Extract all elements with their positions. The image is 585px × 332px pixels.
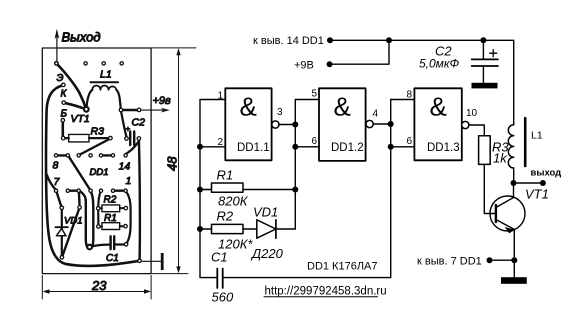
junction pin2 [197,144,203,150]
ground VT1 [501,277,527,284]
C2 plus [490,50,497,57]
DD1 bottom pad row [54,188,128,193]
svg-text:+9в: +9в [153,95,172,107]
+9v wire [330,40,390,64]
C2 lead bottom [482,66,484,83]
right rail [223,100,391,278]
dimension extension 23 right [150,276,152,300]
junction right pin6 [388,144,394,150]
C2 plates pcb [130,132,134,146]
svg-text:1: 1 [126,175,132,187]
bubble DD1.2 [366,120,373,127]
dimension line 48 [178,50,180,272]
bubble DD1.1 [272,121,279,128]
trace coil to +9v pad [121,109,138,111]
R1 stubs [98,225,123,227]
R3 lead down [484,164,495,213]
gate DD1.1 [225,88,271,160]
trace C2 right down right side [139,140,140,259]
svg-text:&: & [334,92,351,122]
R1 pcb body [102,223,120,230]
svg-text:+9В: +9В [294,59,314,71]
gate DD1.3 [414,88,461,160]
svg-text:Д220: Д220 [250,246,284,261]
pad R3 right [108,136,113,141]
mount pads top [83,61,88,66]
junction out1 [292,122,298,128]
wire out DD1.2 [373,123,391,125]
L1 underline [91,81,119,83]
pad R2 right [123,206,128,211]
svg-text:820К: 820К [218,194,249,209]
svg-text:DD1.1: DD1.1 [237,142,270,154]
R3 pcb body [69,134,89,142]
svg-text:DD1.3: DD1.3 [427,142,460,154]
R3 left stub [65,137,69,139]
svg-text:к выв. 7 DD1: к выв. 7 DD1 [417,256,482,268]
svg-text:http://299792458.3dn.ru: http://299792458.3dn.ru [265,286,387,298]
DD1 top pad row [54,153,128,158]
svg-text:14: 14 [119,161,131,173]
svg-text:Б: Б [61,109,68,120]
dimension line 23 [45,291,150,293]
svg-text:8: 8 [407,90,413,101]
pad VD1 bottom [60,255,65,260]
bubble DD1.3 [462,121,469,128]
base bar [495,205,497,222]
svg-text:C1: C1 [211,250,228,265]
svg-text:560: 560 [212,290,234,305]
svg-text:10: 10 [466,108,478,119]
junction out2 [388,121,394,127]
L1 coil schematic [508,125,513,168]
svg-text:DD1.2: DD1.2 [331,142,364,154]
branch to pin7 pad [46,174,56,190]
bottom pads bar 2-3 [68,189,79,191]
mid rail [295,100,319,230]
bottom pads bar 6-7 [113,189,126,191]
emitter lead down [513,230,515,278]
pad C2 left [124,136,129,141]
pad diag top [77,205,82,210]
terminal dot 14 [327,37,333,43]
VD1 vertical trace [61,209,63,256]
wire out DD1.1 [279,124,295,126]
svg-text:&: & [430,92,447,122]
svg-text:R1: R1 [217,168,234,183]
svg-text:6: 6 [312,136,318,147]
junction R1 left [197,187,203,193]
svg-text:Выход: Выход [62,30,101,45]
pad K [61,100,66,105]
gate DD1.2 [319,88,366,161]
+9v arrow pcb [141,109,167,111]
trace E pad to collector blob [56,64,86,110]
top pads bar 1-2 [56,154,68,156]
pin2 stub [200,146,225,148]
pin6 stub DD1.2 [295,146,319,148]
ground C2 [472,83,498,89]
pad C1 right [124,242,129,247]
R1 wires [200,189,295,191]
svg-text:R1: R1 [104,213,117,224]
junction emitter [511,257,517,263]
svg-text:5,0мкФ: 5,0мкФ [419,57,460,71]
pad vyhod [54,61,59,66]
R3 right lead [89,137,109,139]
junction mid pin6 [292,144,298,150]
L1 core [524,118,527,166]
pad coil right [119,108,124,113]
junction R1 right [292,187,298,193]
svg-text:К: К [61,89,68,100]
svg-text:48: 48 [165,156,180,171]
junction R2 left [197,226,203,232]
right column trace pin1 down to C1 pad [126,191,131,244]
svg-text:5: 5 [312,89,318,100]
svg-text:6: 6 [407,136,413,147]
svg-text:L1: L1 [100,69,112,81]
blob hairpin [86,244,93,251]
left rail DD1.1 inputs [200,100,225,278]
VD1 diode bar [55,226,68,228]
C2 lead top [482,40,484,58]
junction C2 top [480,37,486,43]
pin6 stub DD1.3 [391,146,415,148]
ground symbol right of board [141,260,162,262]
svg-text:выход: выход [531,168,562,179]
R2 wires [200,228,257,230]
pad VD1 top [59,205,64,210]
svg-text:Э: Э [57,73,64,84]
long left perimeter trace [46,85,140,266]
pad R2 left [96,206,101,211]
C1 plates pcb [111,236,115,249]
pad B [60,118,65,123]
bottom pad1 to VD1 top [56,191,62,208]
svg-text:VT1: VT1 [525,187,549,202]
trace K pad to blob [64,103,86,110]
svg-text:DD1: DD1 [90,167,109,178]
vyhod terminal dot [540,180,546,186]
C2 plates [472,59,498,66]
pads [54,61,142,263]
junction collector [511,180,517,186]
coil L1 trace [86,90,92,110]
wire out DD1.3 to R3 [469,125,484,136]
VD1 diode triangle [56,229,66,236]
svg-text:8: 8 [53,160,59,172]
svg-text:7: 7 [54,176,61,188]
svg-text:&: & [240,92,257,122]
svg-text:1k: 1k [493,151,508,166]
top rail wire [330,40,514,125]
pad C2 right [137,136,142,141]
k vyv 7 wire [490,259,515,261]
svg-text:L1: L1 [531,130,543,142]
svg-text:4: 4 [373,109,379,120]
vyhod arrow [56,32,58,61]
long diagonal trace [63,208,80,256]
C1 right stub [116,243,124,245]
dimension extension top [152,47,196,49]
R3 schematic [479,136,491,165]
bottom pad3 to diag pad [78,191,81,207]
pad +9v [137,108,142,113]
svg-text:3: 3 [277,107,283,118]
svg-text:R2: R2 [217,209,234,224]
R2 stubs [98,207,123,209]
link pin14 to right trace [126,142,139,154]
svg-text:R3: R3 [91,126,105,138]
pad E [61,83,66,88]
dimension extension bottom [152,273,188,275]
pad R3 left [61,136,66,141]
board outline [42,48,151,274]
svg-text:VD1: VD1 [253,205,278,220]
VT1 transistor [490,196,525,231]
junction +9v top [386,37,392,43]
pad R1 right [123,224,128,229]
svg-text:R2: R2 [104,195,117,206]
top pads bar 5-6 [101,154,113,156]
trace B pad down to R3 [61,121,64,137]
R3 diag to pad row [80,139,110,155]
R2 pcb body [102,205,120,212]
vyhod wire [514,182,543,184]
+9v terminal dot [327,61,333,67]
svg-text:DD1 К176ЛА7: DD1 К176ЛА7 [307,261,378,273]
collector blob [83,106,90,113]
pad R1 left [96,224,101,229]
svg-text:С2: С2 [132,117,146,129]
svg-text:С1: С1 [106,253,119,264]
terminal dot 7 [487,257,493,263]
emitter arrow [505,227,515,233]
L1 bottom lead [513,168,515,183]
diag pad2 to bottom pad4 [68,156,90,190]
trace coil pad down to C2 left [121,111,127,137]
blob to C1 [90,245,109,247]
svg-text:к выв. 14 DD1: к выв. 14 DD1 [253,35,324,47]
svg-text:23: 23 [91,278,107,293]
emitter line [496,220,515,230]
hairpin [79,190,93,248]
pad ground bottom right [137,258,142,263]
left column trace pad5 to R1 left [98,191,101,227]
dimension extension 23 left [41,276,43,300]
collector line [496,183,514,208]
svg-text:VT1: VT1 [71,113,90,125]
